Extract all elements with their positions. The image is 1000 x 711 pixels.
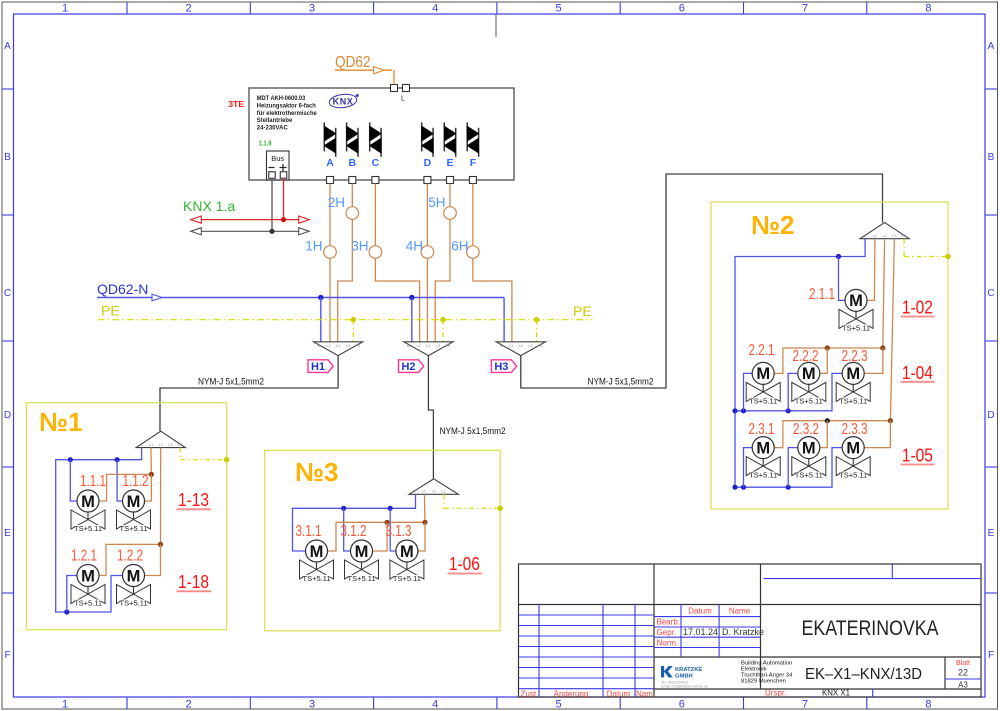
- svg-text:L1: L1: [416, 344, 420, 348]
- svg-text:2.3.3: 2.3.3: [842, 421, 868, 438]
- svg-text:L1: L1: [326, 344, 330, 348]
- svg-text:C: C: [987, 288, 994, 299]
- svg-text:H2: H2: [401, 361, 415, 373]
- svg-text:№3: №3: [295, 457, 338, 487]
- svg-text:EK–X1–KNX/13D: EK–X1–KNX/13D: [805, 666, 922, 683]
- svg-text:Bus: Bus: [271, 154, 284, 163]
- svg-text:5: 5: [555, 3, 561, 15]
- svg-text:Email info@kratzke-online.de: Email info@kratzke-online.de: [661, 685, 708, 689]
- svg-text:C: C: [372, 157, 380, 169]
- svg-text:L3: L3: [168, 443, 172, 447]
- svg-text:L1: L1: [873, 234, 877, 238]
- svg-text:E: E: [446, 157, 453, 169]
- svg-text:KNX X1: KNX X1: [822, 689, 851, 698]
- svg-text:5H: 5H: [428, 195, 445, 210]
- svg-text:1-06: 1-06: [449, 554, 480, 574]
- svg-text:M: M: [756, 439, 770, 457]
- svg-text:Änderung: Änderung: [554, 689, 589, 698]
- svg-text:PE: PE: [101, 303, 120, 319]
- svg-text:TS+5.11: TS+5.11: [302, 574, 330, 583]
- svg-text:2.2.2: 2.2.2: [793, 348, 819, 365]
- svg-text:NYM-J 5x1,5mm2: NYM-J 5x1,5mm2: [440, 426, 506, 436]
- svg-text:E: E: [4, 528, 11, 539]
- svg-text:KNX: KNX: [333, 97, 354, 107]
- svg-text:4: 4: [432, 699, 438, 711]
- svg-text:B: B: [988, 152, 995, 163]
- svg-text:81829 Muenchen: 81829 Muenchen: [741, 679, 786, 685]
- svg-text:1-18: 1-18: [178, 572, 209, 592]
- svg-text:Heizungsaktor 6-fach: Heizungsaktor 6-fach: [257, 103, 316, 110]
- svg-text:Stellantriebe: Stellantriebe: [257, 117, 293, 124]
- svg-text:NYM-J 5x1,5mm2: NYM-J 5x1,5mm2: [198, 377, 264, 387]
- svg-text:D: D: [424, 157, 432, 169]
- svg-text:D: D: [4, 410, 11, 421]
- svg-text:L2: L2: [336, 344, 340, 348]
- svg-text:1-05: 1-05: [902, 446, 933, 466]
- svg-text:Datum: Datum: [607, 689, 631, 698]
- svg-text:3H: 3H: [351, 239, 368, 254]
- svg-text:F: F: [988, 650, 994, 661]
- svg-text:PE: PE: [573, 303, 592, 319]
- svg-text:1: 1: [62, 3, 68, 15]
- svg-text:L2: L2: [882, 234, 886, 238]
- svg-text:2H: 2H: [328, 195, 345, 210]
- svg-text:1.1.2: 1.1.2: [123, 473, 149, 490]
- svg-text:TS+5.11: TS+5.11: [119, 599, 147, 608]
- svg-text:L3: L3: [436, 344, 440, 348]
- svg-text:PE: PE: [355, 344, 361, 348]
- svg-text:1-13: 1-13: [178, 490, 209, 510]
- svg-text:L3: L3: [528, 344, 532, 348]
- svg-text:1: 1: [62, 699, 68, 711]
- svg-text:3.1.2: 3.1.2: [341, 523, 367, 540]
- svg-text:Norm.: Norm.: [657, 638, 679, 647]
- svg-text:N: N: [407, 344, 410, 348]
- svg-text:QD62-N: QD62-N: [97, 281, 148, 297]
- svg-text:A: A: [988, 41, 995, 52]
- svg-text:Bearb.: Bearb.: [657, 618, 681, 627]
- svg-text:E: E: [988, 528, 995, 539]
- svg-text:M: M: [846, 365, 860, 383]
- svg-text:1H: 1H: [305, 239, 322, 254]
- svg-text:D. Kratzke: D. Kratzke: [722, 627, 764, 637]
- svg-text:L2: L2: [426, 344, 430, 348]
- svg-text:N: N: [413, 490, 416, 494]
- svg-text:5: 5: [555, 699, 561, 711]
- svg-text:L2: L2: [432, 490, 436, 494]
- svg-text:TS+5.11: TS+5.11: [795, 396, 823, 405]
- svg-text:PE: PE: [902, 234, 908, 238]
- svg-text:B: B: [4, 152, 11, 163]
- svg-text:M: M: [846, 439, 860, 457]
- svg-text:L3: L3: [892, 234, 896, 238]
- svg-text:M: M: [310, 543, 324, 561]
- svg-text:24-230VAC: 24-230VAC: [257, 125, 288, 132]
- svg-text:M: M: [849, 292, 863, 310]
- svg-text:TS+5.11: TS+5.11: [839, 471, 867, 480]
- svg-text:6H: 6H: [451, 239, 468, 254]
- svg-text:für elektrothermische: für elektrothermische: [257, 110, 317, 117]
- svg-text:4H: 4H: [406, 239, 423, 254]
- svg-text:Urspr.: Urspr.: [765, 689, 786, 698]
- svg-text:L2: L2: [519, 344, 523, 348]
- svg-text:L3: L3: [346, 344, 350, 348]
- svg-text:N: N: [864, 234, 867, 238]
- svg-text:A: A: [4, 41, 11, 52]
- svg-text:3: 3: [309, 3, 315, 15]
- svg-text:MDT AKH-0600.03: MDT AKH-0600.03: [257, 95, 306, 102]
- svg-text:PE: PE: [445, 344, 451, 348]
- svg-text:7: 7: [802, 699, 808, 711]
- svg-text:1.2.2: 1.2.2: [117, 548, 143, 565]
- svg-text:L: L: [401, 96, 405, 103]
- svg-text:2.2.1: 2.2.1: [749, 342, 775, 359]
- svg-text:KNX 1.a: KNX 1.a: [183, 198, 235, 214]
- svg-text:Nam.: Nam.: [636, 689, 655, 698]
- svg-text:2: 2: [186, 699, 192, 711]
- svg-text:6: 6: [679, 699, 685, 711]
- svg-text:QD62: QD62: [335, 54, 371, 71]
- svg-text:NYM-J 5x1,5mm2: NYM-J 5x1,5mm2: [588, 377, 654, 387]
- svg-text:№1: №1: [39, 407, 82, 437]
- svg-text:L1: L1: [422, 490, 426, 494]
- svg-text:TS+5.11: TS+5.11: [795, 471, 823, 480]
- svg-text:2.3.1: 2.3.1: [749, 421, 775, 438]
- svg-text:3.1.1: 3.1.1: [296, 523, 322, 540]
- svg-text:H3: H3: [494, 361, 508, 373]
- svg-text:M: M: [756, 365, 770, 383]
- svg-text:6: 6: [679, 3, 685, 15]
- svg-text:L1: L1: [509, 344, 513, 348]
- svg-text:2.3.2: 2.3.2: [793, 421, 819, 438]
- svg-text:PE: PE: [451, 490, 457, 494]
- svg-text:1-02: 1-02: [902, 298, 933, 318]
- svg-text:№2: №2: [751, 210, 794, 240]
- svg-text:2.1.1: 2.1.1: [809, 286, 835, 303]
- svg-text:L1: L1: [149, 443, 153, 447]
- svg-text:Name: Name: [729, 607, 751, 616]
- svg-text:M: M: [81, 493, 95, 511]
- svg-text:17.01.24: 17.01.24: [683, 627, 718, 637]
- svg-text:F: F: [4, 650, 10, 661]
- svg-text:M: M: [355, 543, 369, 561]
- svg-text:Datum: Datum: [688, 607, 712, 616]
- svg-text:TS+5.11: TS+5.11: [842, 323, 870, 332]
- svg-text:1.1.1: 1.1.1: [80, 473, 106, 490]
- svg-text:1.1.9: 1.1.9: [259, 139, 272, 148]
- svg-text:L2: L2: [159, 443, 163, 447]
- svg-text:M: M: [400, 543, 414, 561]
- svg-text:M: M: [802, 365, 816, 383]
- svg-text:Gepr.: Gepr.: [657, 628, 677, 637]
- svg-text:Zust.: Zust.: [521, 689, 539, 698]
- svg-text:TS+5.11: TS+5.11: [393, 574, 421, 583]
- svg-text:A3: A3: [958, 681, 968, 690]
- svg-text:TS+5.11: TS+5.11: [74, 599, 102, 608]
- svg-text:F: F: [470, 157, 477, 169]
- svg-text:1-04: 1-04: [902, 363, 933, 383]
- svg-text:22: 22: [958, 668, 968, 678]
- svg-text:PE: PE: [538, 344, 544, 348]
- svg-text:8: 8: [925, 3, 931, 15]
- svg-text:2.2.3: 2.2.3: [842, 348, 868, 365]
- svg-text:KRATZKE: KRATZKE: [675, 667, 702, 673]
- svg-text:TS+5.11: TS+5.11: [749, 396, 777, 405]
- svg-text:M: M: [127, 567, 141, 585]
- svg-text:A: A: [326, 157, 334, 169]
- svg-text:3.1.3: 3.1.3: [386, 523, 412, 540]
- svg-text:TS+5.11: TS+5.11: [839, 396, 867, 405]
- svg-text:8: 8: [925, 699, 931, 711]
- svg-text:1.2.1: 1.2.1: [71, 548, 97, 565]
- svg-text:C: C: [4, 288, 11, 299]
- svg-text:M: M: [81, 567, 95, 585]
- svg-text:N: N: [140, 443, 143, 447]
- svg-text:M: M: [802, 439, 816, 457]
- svg-text:Blatt: Blatt: [956, 660, 970, 667]
- svg-text:TS+5.11: TS+5.11: [749, 471, 777, 480]
- svg-text:7: 7: [802, 3, 808, 15]
- svg-text:3: 3: [309, 699, 315, 711]
- svg-text:H1: H1: [311, 361, 325, 373]
- svg-text:PE: PE: [178, 443, 184, 447]
- svg-text:M: M: [127, 493, 141, 511]
- svg-text:TS+5.11: TS+5.11: [119, 524, 147, 533]
- svg-text:2: 2: [186, 3, 192, 15]
- svg-text:EKATERINOVKA: EKATERINOVKA: [802, 617, 939, 640]
- svg-text:TS+5.11: TS+5.11: [74, 524, 102, 533]
- svg-text:D: D: [987, 410, 994, 421]
- svg-text:N: N: [317, 344, 320, 348]
- svg-text:B: B: [349, 157, 357, 169]
- svg-text:GMBH: GMBH: [675, 674, 693, 680]
- svg-text:L3: L3: [441, 490, 445, 494]
- svg-text:3TE: 3TE: [228, 99, 244, 109]
- svg-text:4: 4: [432, 3, 438, 15]
- svg-text:N: N: [500, 344, 503, 348]
- svg-text:TS+5.11: TS+5.11: [347, 574, 375, 583]
